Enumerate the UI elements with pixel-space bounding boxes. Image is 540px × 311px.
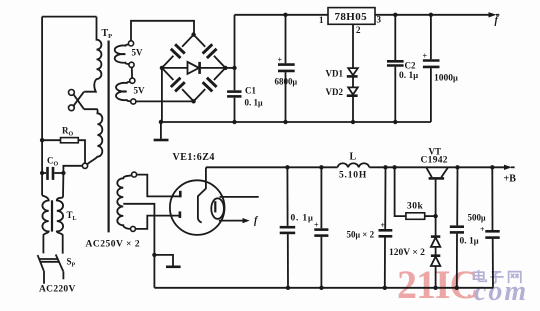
svg-text:0. 1μ: 0. 1μ — [399, 70, 418, 81]
svg-text:TL: TL — [67, 210, 77, 222]
svg-text:AC220V: AC220V — [39, 285, 76, 295]
capacitor 50u first — [314, 167, 328, 287]
svg-text:C1: C1 — [245, 86, 256, 96]
wire filament lower to f — [219, 220, 244, 222]
svg-text:+: + — [381, 221, 386, 230]
node bridge top — [191, 32, 195, 36]
node base 30k junction — [433, 214, 437, 218]
node bottom 50u2 — [383, 286, 387, 290]
capacitor bridge arm bottom-left — [171, 78, 185, 92]
terminal TP primary bottom — [82, 163, 87, 168]
wire zener to bottom rail — [435, 266, 437, 288]
svg-text:0. 1μ: 0. 1μ — [291, 213, 314, 224]
svg-text:+: + — [314, 221, 319, 230]
transformer TP core — [107, 41, 109, 233]
tube filament envelope — [211, 198, 224, 219]
node C1 bottom — [232, 120, 236, 124]
wire winding2 bottom to bridge bottom — [136, 100, 194, 102]
transformer TP 5V winding 1 — [115, 41, 134, 68]
svg-text:+B: +B — [504, 174, 517, 185]
transformer HV winding — [117, 172, 136, 231]
svg-text:TP: TP — [102, 28, 113, 40]
svg-text:SP: SP — [67, 257, 76, 269]
wire bridge left to ground rail — [161, 68, 163, 122]
node 30k riser top — [392, 165, 396, 169]
transformer TP primary upper winding — [84, 17, 101, 92]
capacitor 50u second — [379, 167, 393, 287]
svg-text:VE1:6Z4: VE1:6Z4 — [173, 152, 215, 163]
svg-text:0. 1μ: 0. 1μ — [245, 98, 264, 108]
svg-text:C1942: C1942 — [421, 156, 448, 166]
svg-text:VD1: VD1 — [326, 69, 344, 79]
node C0 left — [40, 171, 44, 175]
svg-text:120V × 2: 120V × 2 — [389, 248, 425, 258]
wire mains left rail — [41, 17, 43, 196]
zener VD 120V upper — [431, 237, 440, 247]
node 1000u top — [429, 13, 433, 17]
wire B+ rail right — [369, 166, 509, 168]
tube filament element — [214, 201, 216, 212]
transformer TL left winding — [42, 196, 49, 254]
tube plate lower — [179, 211, 182, 218]
capacitor C1 — [227, 92, 241, 122]
transistor VT C1942 — [426, 167, 448, 216]
node 500u top — [490, 165, 494, 169]
tube VE1 6Z4 envelope — [170, 180, 225, 235]
node 50u1 top — [319, 165, 323, 169]
node 6800u top — [283, 13, 287, 17]
transformer TP 5V winding 2 — [116, 78, 136, 104]
wire bottom rail lower circuit — [154, 287, 493, 289]
svg-text:6800μ: 6800μ — [275, 77, 298, 87]
capacitor 0.1u left — [280, 167, 296, 287]
resistor 30k — [406, 213, 436, 220]
wire zener link — [435, 247, 437, 256]
capacitor bridge arm top-right — [203, 44, 217, 58]
svg-text:L: L — [350, 152, 357, 163]
resistor R0 — [42, 138, 85, 164]
svg-text:0. 1μ: 0. 1μ — [460, 236, 479, 247]
svg-text:30k: 30k — [407, 202, 424, 212]
wire VD2 to ground rail — [352, 96, 354, 122]
wire base to zener — [435, 216, 437, 236]
wire bridge right to riser — [225, 67, 234, 69]
ground lower circuit — [154, 255, 180, 267]
wire VD1 to VD2 — [352, 76, 354, 87]
node R0 left — [40, 138, 44, 142]
node bottom 0.1u right — [455, 286, 459, 290]
node VD2 bottom — [351, 120, 355, 124]
node bridge left — [160, 66, 164, 70]
arrow +B output — [504, 165, 512, 170]
tube cathode — [198, 167, 206, 222]
capacitor 6800u — [278, 15, 295, 122]
node C2 top — [393, 13, 397, 17]
ground top circuit — [154, 122, 169, 140]
capacitor bridge arm bottom-right — [203, 78, 217, 92]
node C2 bottom — [393, 120, 397, 124]
wire top rail left — [235, 14, 329, 16]
switch scissors cut — [69, 90, 85, 111]
svg-text:C2: C2 — [405, 61, 416, 71]
arrow f output top — [489, 12, 497, 17]
wire 5V series link — [131, 67, 133, 78]
switch SP — [38, 255, 64, 284]
node C0 right — [61, 171, 65, 175]
svg-text:1000μ: 1000μ — [434, 73, 458, 84]
wire winding1 top to bridge top — [131, 21, 194, 41]
node bottom 50u1 — [319, 286, 323, 290]
regulator U1 78H05 — [328, 8, 375, 25]
transformer TP primary lower winding — [84, 109, 102, 164]
svg-text:50μ × 2: 50μ × 2 — [347, 230, 375, 240]
tube plate upper — [179, 191, 182, 198]
wire riser C1 — [234, 15, 236, 91]
watermark dianziwang — [474, 270, 521, 283]
transformer TL right winding — [57, 198, 63, 254]
svg-text:VD2: VD2 — [326, 87, 344, 97]
svg-text:f: f — [254, 216, 259, 227]
capacitor 1000u — [423, 15, 440, 122]
wire HV bottom to lower plate — [136, 216, 180, 229]
svg-text:3: 3 — [377, 15, 382, 25]
node 6800u bottom — [283, 120, 287, 124]
svg-text:78H05: 78H05 — [335, 11, 368, 23]
svg-text:500μ: 500μ — [468, 213, 487, 223]
capacitor C2 — [387, 15, 404, 122]
svg-text:+: + — [278, 56, 283, 65]
svg-text:+: + — [423, 52, 428, 61]
svg-text:f: f — [495, 16, 500, 27]
wire ground rail top circuit — [161, 121, 431, 123]
svg-text:21IC: 21IC — [397, 262, 477, 307]
wire HV top to upper plate — [137, 175, 180, 197]
watermark 21IC — [397, 262, 477, 307]
wire mains top — [42, 16, 96, 18]
diode bridge center — [162, 62, 226, 74]
svg-text:1: 1 — [319, 15, 324, 25]
svg-text:2: 2 — [356, 25, 361, 35]
diode VD1 — [347, 68, 358, 76]
inductor L — [338, 163, 370, 167]
capacitor 0.1u right — [450, 167, 464, 287]
svg-text:com: com — [474, 276, 528, 307]
node bottom zener — [433, 286, 437, 290]
svg-text:CO: CO — [47, 156, 59, 168]
svg-text:+: + — [480, 225, 485, 234]
node riser top of C1 — [232, 66, 236, 70]
node center tap ground — [152, 253, 156, 257]
zener VD 120V lower — [431, 256, 440, 266]
node bridge right — [223, 66, 227, 70]
node 0.1u left top — [285, 165, 289, 169]
wire center tap down — [123, 204, 154, 288]
bridge rectifier arms — [162, 35, 226, 102]
diode VD2 — [347, 87, 358, 95]
wire C0 right down to TL — [62, 173, 64, 198]
arrow f filament — [243, 218, 250, 223]
wire C0 to primary terminal — [63, 166, 82, 173]
node bottom 0.1u left — [286, 286, 290, 290]
svg-text:5.10H: 5.10H — [339, 171, 367, 181]
wire pin2 down — [352, 24, 354, 67]
transformer TL core — [51, 200, 53, 231]
svg-text:RO: RO — [62, 126, 74, 138]
node bridge bottom — [191, 99, 195, 103]
svg-text:5V: 5V — [132, 48, 144, 58]
svg-text:AC250V × 2: AC250V × 2 — [86, 240, 141, 250]
wire filament upper stub — [220, 196, 259, 198]
capacitor bridge arm top-left — [171, 44, 185, 58]
wire B+ rail left — [206, 166, 338, 168]
capacitor 500u — [485, 167, 499, 287]
capacitor C0 — [42, 167, 63, 180]
node 0.1u right top — [455, 165, 459, 169]
node 50u2 top — [383, 165, 387, 169]
svg-text:5V: 5V — [134, 86, 146, 96]
wire 30k riser — [395, 167, 406, 216]
node ground tap — [159, 120, 163, 124]
wire top rail right — [375, 14, 490, 16]
svg-text:.: . — [467, 281, 472, 301]
